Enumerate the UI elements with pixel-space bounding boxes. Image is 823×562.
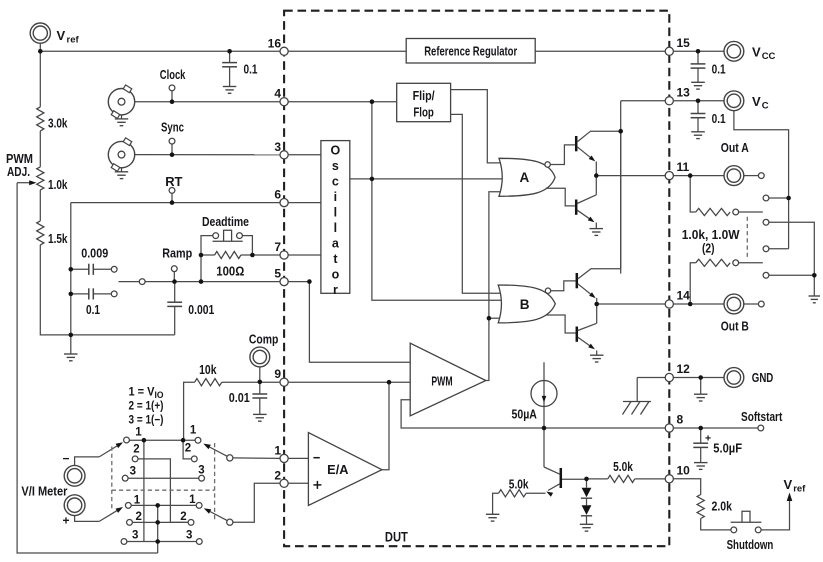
svg-text:C: C <box>762 100 769 111</box>
svg-text:CC: CC <box>762 51 776 62</box>
svg-text:0.1: 0.1 <box>86 303 100 317</box>
svg-text:Flip/: Flip/ <box>413 89 435 103</box>
svg-text:GND: GND <box>752 370 774 385</box>
svg-text:V: V <box>752 94 761 109</box>
svg-text:Clock: Clock <box>160 67 186 82</box>
svg-text:5.0k: 5.0k <box>613 460 633 474</box>
svg-text:s: s <box>332 159 339 173</box>
svg-text:Deadtime: Deadtime <box>202 214 249 229</box>
svg-text:3 = 1(−): 3 = 1(−) <box>129 413 164 427</box>
svg-text:Out B: Out B <box>721 319 749 334</box>
svg-text:ref: ref <box>67 35 80 46</box>
svg-text:V: V <box>784 477 793 492</box>
svg-text:3: 3 <box>198 465 204 477</box>
svg-text:0.01: 0.01 <box>229 391 250 405</box>
svg-text:ref: ref <box>793 484 806 495</box>
svg-text:1.0k: 1.0k <box>48 178 68 192</box>
svg-text:2: 2 <box>133 443 139 455</box>
svg-text:1.5k: 1.5k <box>48 232 68 246</box>
svg-text:1 = V: 1 = V <box>129 385 155 399</box>
svg-text:A: A <box>520 170 530 185</box>
svg-text:Sync: Sync <box>161 120 184 135</box>
svg-text:1: 1 <box>190 425 197 437</box>
svg-text:4: 4 <box>274 87 281 101</box>
svg-text:7: 7 <box>274 240 281 254</box>
svg-text:2: 2 <box>136 511 142 523</box>
svg-text:3: 3 <box>130 466 136 478</box>
svg-text:E/A: E/A <box>327 463 348 477</box>
svg-text:l: l <box>334 205 337 219</box>
svg-text:V/I Meter: V/I Meter <box>21 484 67 499</box>
svg-text:1: 1 <box>134 495 141 507</box>
svg-text:−: − <box>63 452 70 466</box>
svg-text:6: 6 <box>274 188 281 202</box>
svg-text:14: 14 <box>677 289 691 303</box>
svg-text:O: O <box>331 143 341 157</box>
svg-text:13: 13 <box>677 85 691 99</box>
svg-text:i: i <box>334 190 337 204</box>
svg-text:3.0k: 3.0k <box>48 117 68 131</box>
svg-text:2: 2 <box>180 511 186 523</box>
svg-text:Softstart: Softstart <box>741 409 783 424</box>
svg-text:5.0µF: 5.0µF <box>713 442 742 456</box>
svg-text:2: 2 <box>274 468 281 482</box>
svg-text:3: 3 <box>274 140 281 154</box>
svg-text:8: 8 <box>677 413 684 427</box>
svg-text:r: r <box>333 283 338 297</box>
svg-text:o: o <box>332 267 340 281</box>
svg-text:1: 1 <box>274 443 281 457</box>
svg-text:V: V <box>752 45 761 60</box>
svg-text:50µA: 50µA <box>512 407 538 422</box>
svg-text:Shutdown: Shutdown <box>727 537 774 552</box>
svg-text:10k: 10k <box>199 363 216 377</box>
svg-text:+: + <box>705 433 711 445</box>
svg-text:15: 15 <box>677 36 691 50</box>
svg-text:c: c <box>332 174 339 188</box>
svg-text:5.0k: 5.0k <box>509 478 529 492</box>
svg-text:16: 16 <box>268 36 282 50</box>
svg-text:PWM: PWM <box>431 375 452 389</box>
svg-text:Reference Regulator: Reference Regulator <box>424 44 517 58</box>
svg-text:0.1: 0.1 <box>244 63 258 77</box>
svg-text:Out A: Out A <box>721 140 749 155</box>
svg-text:1.0k, 1.0W: 1.0k, 1.0W <box>682 228 740 242</box>
svg-text:0.001: 0.001 <box>188 303 214 317</box>
svg-text:2: 2 <box>185 443 191 455</box>
svg-text:Ramp: Ramp <box>162 246 192 261</box>
svg-text:3: 3 <box>132 530 138 542</box>
svg-text:3: 3 <box>186 530 192 542</box>
svg-text:0.1: 0.1 <box>712 112 726 126</box>
svg-text:(2): (2) <box>702 242 715 256</box>
svg-text:ADJ.: ADJ. <box>7 164 30 179</box>
svg-text:l: l <box>334 221 337 235</box>
svg-text:B: B <box>520 297 530 312</box>
svg-text:10: 10 <box>677 463 691 477</box>
svg-text:0.009: 0.009 <box>81 247 108 261</box>
svg-text:2 = 1(+): 2 = 1(+) <box>129 399 164 413</box>
svg-text:9: 9 <box>274 367 281 381</box>
svg-text:a: a <box>332 236 340 250</box>
svg-text:RT: RT <box>165 174 182 189</box>
svg-text:12: 12 <box>677 362 691 376</box>
svg-text:1: 1 <box>135 427 142 439</box>
svg-text:2.0k: 2.0k <box>712 500 733 514</box>
svg-text:0.1: 0.1 <box>712 63 726 77</box>
svg-text:+: + <box>63 514 70 528</box>
svg-text:Comp: Comp <box>249 332 279 347</box>
svg-text:1: 1 <box>189 494 196 506</box>
svg-text:Flop: Flop <box>413 106 434 120</box>
svg-text:11: 11 <box>677 160 690 174</box>
svg-text:100Ω: 100Ω <box>216 265 244 279</box>
svg-text:DUT: DUT <box>385 530 409 545</box>
svg-text:V: V <box>57 28 66 43</box>
svg-text:5: 5 <box>274 267 281 281</box>
